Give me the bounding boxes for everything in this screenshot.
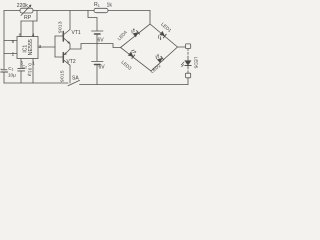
wire bottom rail left — [4, 82, 68, 84]
svg-text:4: 4 — [32, 32, 35, 37]
potentiometer RP box — [20, 8, 33, 13]
wire emitters join — [70, 44, 97, 50]
dashed link upper — [187, 49, 189, 57]
transistor VT1 — [62, 32, 64, 42]
switch SA blade — [68, 80, 80, 85]
svg-text:C1: C1 — [8, 66, 13, 72]
svg-text:1k: 1k — [107, 3, 113, 9]
wire left vertical — [3, 11, 5, 70]
svg-text:RP: RP — [24, 15, 32, 21]
wire pin3 stub — [38, 46, 55, 48]
op IC1 NE555 box — [17, 37, 38, 59]
wire pin1 down — [32, 59, 34, 84]
wire pin4 up — [32, 21, 34, 37]
wire battery to bottom rail — [96, 65, 98, 85]
wire output to bridge — [97, 44, 121, 48]
wire pin8 up — [20, 21, 22, 37]
svg-text:220k: 220k — [17, 3, 28, 9]
wire VT2 base stub — [55, 56, 63, 58]
wire LED5 to rail — [187, 78, 189, 85]
svg-text:SA: SA — [72, 76, 79, 82]
svg-text:2: 2 — [12, 51, 15, 56]
wire pin2 stub — [4, 53, 17, 55]
wire riser to rail — [36, 11, 38, 22]
LED5 — [185, 61, 191, 66]
plug connector lower — [186, 73, 191, 78]
wire pin5 down — [20, 59, 22, 69]
wire bottom rail right — [80, 84, 189, 86]
svg-text:LED5: LED5 — [194, 57, 199, 69]
svg-text:0.01µ: 0.01µ — [26, 63, 32, 77]
wire drop to bridge top — [149, 11, 151, 25]
LED4 on upper-left edge — [131, 28, 140, 37]
wire top rail mid — [33, 10, 94, 12]
LED2 on lower-right edge — [155, 54, 164, 63]
resistor R1 — [94, 8, 108, 12]
svg-text:6V: 6V — [99, 65, 106, 71]
wire pin6 stub — [4, 40, 17, 42]
wire top rail left — [4, 10, 20, 12]
svg-text:VT1: VT1 — [72, 30, 81, 36]
wire VT1 base stub — [55, 35, 63, 37]
svg-text:6V: 6V — [98, 37, 105, 43]
svg-text:9013: 9013 — [58, 21, 64, 33]
dashed link lower — [187, 67, 189, 73]
wire battery column — [96, 35, 98, 62]
svg-text:C2: C2 — [22, 64, 27, 70]
wire battery branch from rail — [88, 11, 97, 31]
wire base column — [54, 36, 56, 57]
svg-text:9015: 9015 — [60, 70, 66, 82]
transistor VT2 — [62, 53, 64, 63]
svg-text:VT2: VT2 — [67, 59, 76, 65]
battery GB2 — [92, 61, 104, 63]
svg-text:3: 3 — [39, 44, 42, 49]
plug connector upper — [186, 44, 191, 49]
svg-text:NE555: NE555 — [28, 39, 34, 55]
capacitor C1 — [2, 69, 7, 71]
LED1 on upper-right edge — [157, 31, 166, 40]
bridge diamond — [121, 24, 178, 71]
wire VT2 collector down — [69, 65, 71, 83]
wire top rail right — [108, 10, 150, 12]
wire VT1 collector up — [69, 11, 71, 30]
svg-text:+: + — [0, 67, 2, 71]
battery GB1 — [92, 30, 104, 32]
wire bus 8-4 — [21, 20, 37, 22]
svg-text:1: 1 — [32, 60, 35, 65]
svg-text:R1: R1 — [94, 2, 100, 8]
LED3 on lower-left edge — [128, 49, 137, 58]
svg-text:10µ: 10µ — [8, 73, 16, 78]
wire bridge right stub — [178, 46, 186, 48]
capacitor C2 — [18, 67, 25, 69]
potentiometer RP arrow — [21, 5, 31, 16]
svg-text:6: 6 — [12, 39, 15, 44]
svg-text:8: 8 — [19, 32, 22, 37]
